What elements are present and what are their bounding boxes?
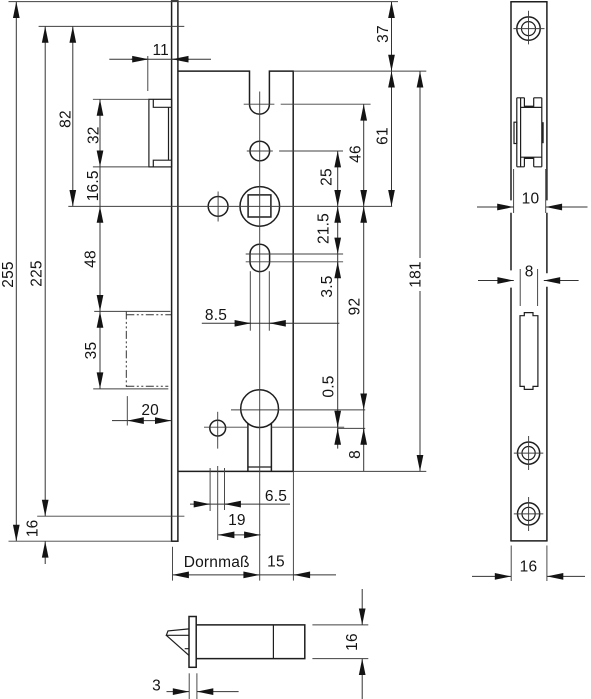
svg-text:8: 8 [347, 450, 364, 459]
dim 255 [15, 2, 17, 542]
svg-text:25: 25 [319, 168, 336, 186]
svg-text:16.5: 16.5 [85, 170, 102, 201]
dim 8 (slot width) [519, 269, 521, 306]
latch top extension [93, 98, 149, 100]
svg-text:Dornmaß: Dornmaß [184, 554, 250, 571]
dim 15 [260, 574, 294, 576]
dim 3.5 [337, 254, 339, 449]
dim 19 [218, 534, 261, 536]
svg-text:8: 8 [525, 264, 534, 281]
datum line top (faceplate top) [9, 1, 399, 3]
oval slot (Langloch) [250, 244, 270, 271]
cylinder centre extension [231, 409, 365, 411]
dim 92 [363, 206, 365, 410]
dim 10 [513, 169, 515, 213]
FRONT VIEW [9, 1, 427, 581]
SIDE VIEW [472, 2, 588, 581]
dim Dornmass [173, 574, 260, 576]
dim 37 [391, 2, 393, 72]
svg-text:61: 61 [374, 127, 391, 145]
svg-text:16: 16 [344, 633, 361, 651]
faceplate profile top edge [510, 1, 547, 3]
faceplate left edge extension down [172, 547, 174, 581]
svg-text:32: 32 [85, 126, 102, 144]
upper guide hole [250, 141, 270, 161]
faceplate profile bottom edge [510, 540, 547, 542]
latch profile right wing [542, 122, 544, 143]
dim 11 [109, 58, 211, 60]
svg-text:10: 10 [522, 191, 540, 208]
latch body (bottom view) [196, 625, 305, 659]
DIMENSIONS RIGHT [316, 2, 425, 472]
spindle follower circle [240, 187, 280, 227]
lock case outline with latch slot [178, 71, 293, 471]
dim 32 [99, 99, 101, 167]
dim 46 [363, 104, 365, 206]
faceplate profile left edge (with breaks) [510, 2, 512, 541]
faceplate profile right edge (with breaks) [546, 2, 548, 541]
faceplate (front view strip) [172, 1, 178, 541]
svg-text:8.5: 8.5 [205, 307, 227, 324]
datum line 225 bottom [37, 515, 184, 517]
centre slot with tabs [520, 313, 538, 390]
dim 3 [188, 673, 190, 699]
latch profile left wing [514, 122, 517, 143]
main vertical centreline [259, 92, 261, 581]
case right edge extension down [292, 471, 294, 580]
latch slot bottom extension [244, 103, 371, 105]
dim 20 [112, 420, 127, 422]
dim 6.5 [190, 503, 290, 505]
svg-text:82: 82 [57, 110, 74, 128]
svg-text:21.5: 21.5 [316, 213, 333, 244]
svg-text:3: 3 [152, 678, 161, 695]
svg-text:92: 92 [346, 298, 363, 316]
dim 82 [72, 26, 74, 206]
svg-text:3.5: 3.5 [319, 275, 336, 297]
latch bolt profile [517, 98, 542, 167]
middle screw hole [518, 442, 540, 464]
cylinder stem [247, 424, 249, 472]
dim 16.5 [99, 167, 101, 207]
dim 0.5 [337, 411, 339, 428]
dim 21.5 [337, 206, 339, 254]
top countersunk screw hole [517, 17, 540, 40]
dim 25 [337, 151, 339, 206]
small hole centre extension (0.5 dim) [338, 427, 365, 429]
latch bolt (front view, protruding) [149, 99, 172, 167]
dim 225 [44, 26, 46, 516]
fixing hole left of spindle [208, 197, 228, 217]
svg-text:181: 181 [407, 261, 424, 287]
BOTTOM VIEW [152, 589, 368, 699]
small hole near cylinder [210, 420, 226, 436]
latch bottom extension [93, 166, 149, 168]
svg-text:48: 48 [83, 250, 100, 268]
phantom box bottom extension [93, 388, 168, 390]
svg-text:35: 35 [83, 342, 100, 360]
dim 8 (cylinder) [363, 410, 365, 471]
oval slot edge extension lines (8.5 dim) [249, 271, 251, 331]
dim 8.5 [202, 322, 339, 324]
dim 181 [419, 71, 421, 471]
fixing hole vertical centreline [217, 192, 219, 222]
svg-text:16: 16 [520, 559, 538, 576]
phantom box top extension [94, 310, 170, 312]
svg-text:16: 16 [25, 519, 42, 537]
latch body divider [272, 625, 274, 659]
case top extension [293, 70, 426, 72]
dim 61 [391, 71, 393, 206]
dim 16 (left bottom) [44, 541, 46, 564]
svg-text:225: 225 [28, 260, 45, 286]
cylinder tangent extension [204, 426, 344, 428]
dim 35 [99, 311, 101, 388]
svg-text:20: 20 [141, 402, 159, 419]
oval top cap centre extension [246, 253, 343, 255]
svg-text:19: 19 [228, 512, 246, 529]
lower screw hole [518, 503, 540, 525]
svg-text:0.5: 0.5 [321, 375, 338, 397]
svg-text:255: 255 [0, 261, 17, 287]
datum line 225 top [39, 25, 185, 27]
svg-text:46: 46 [348, 145, 365, 163]
DIMENSIONS BOTTOM [173, 466, 337, 575]
svg-text:15: 15 [267, 554, 285, 571]
faceplate bottom extension [9, 540, 172, 542]
spindle centre extension [68, 205, 392, 207]
latch tip bevel [166, 629, 189, 656]
dim 16 (side view) [510, 546, 512, 582]
small hole vertical centreline [217, 412, 219, 449]
dim 16 (bottom view) [312, 624, 368, 626]
svg-text:37: 37 [375, 25, 392, 43]
cylinder hole circle [241, 390, 279, 428]
phantom follower box [125, 311, 127, 389]
DIMENSIONS LEFT [0, 2, 339, 564]
svg-text:11: 11 [152, 42, 169, 59]
oval bottom cap centre extension [246, 261, 343, 263]
upper hole centre extension [247, 150, 343, 152]
faceplate cross-section [189, 617, 196, 668]
spindle square hole [248, 195, 271, 217]
svg-text:6.5: 6.5 [265, 488, 287, 505]
case bottom extension [293, 470, 426, 472]
dim 48 [99, 206, 101, 311]
